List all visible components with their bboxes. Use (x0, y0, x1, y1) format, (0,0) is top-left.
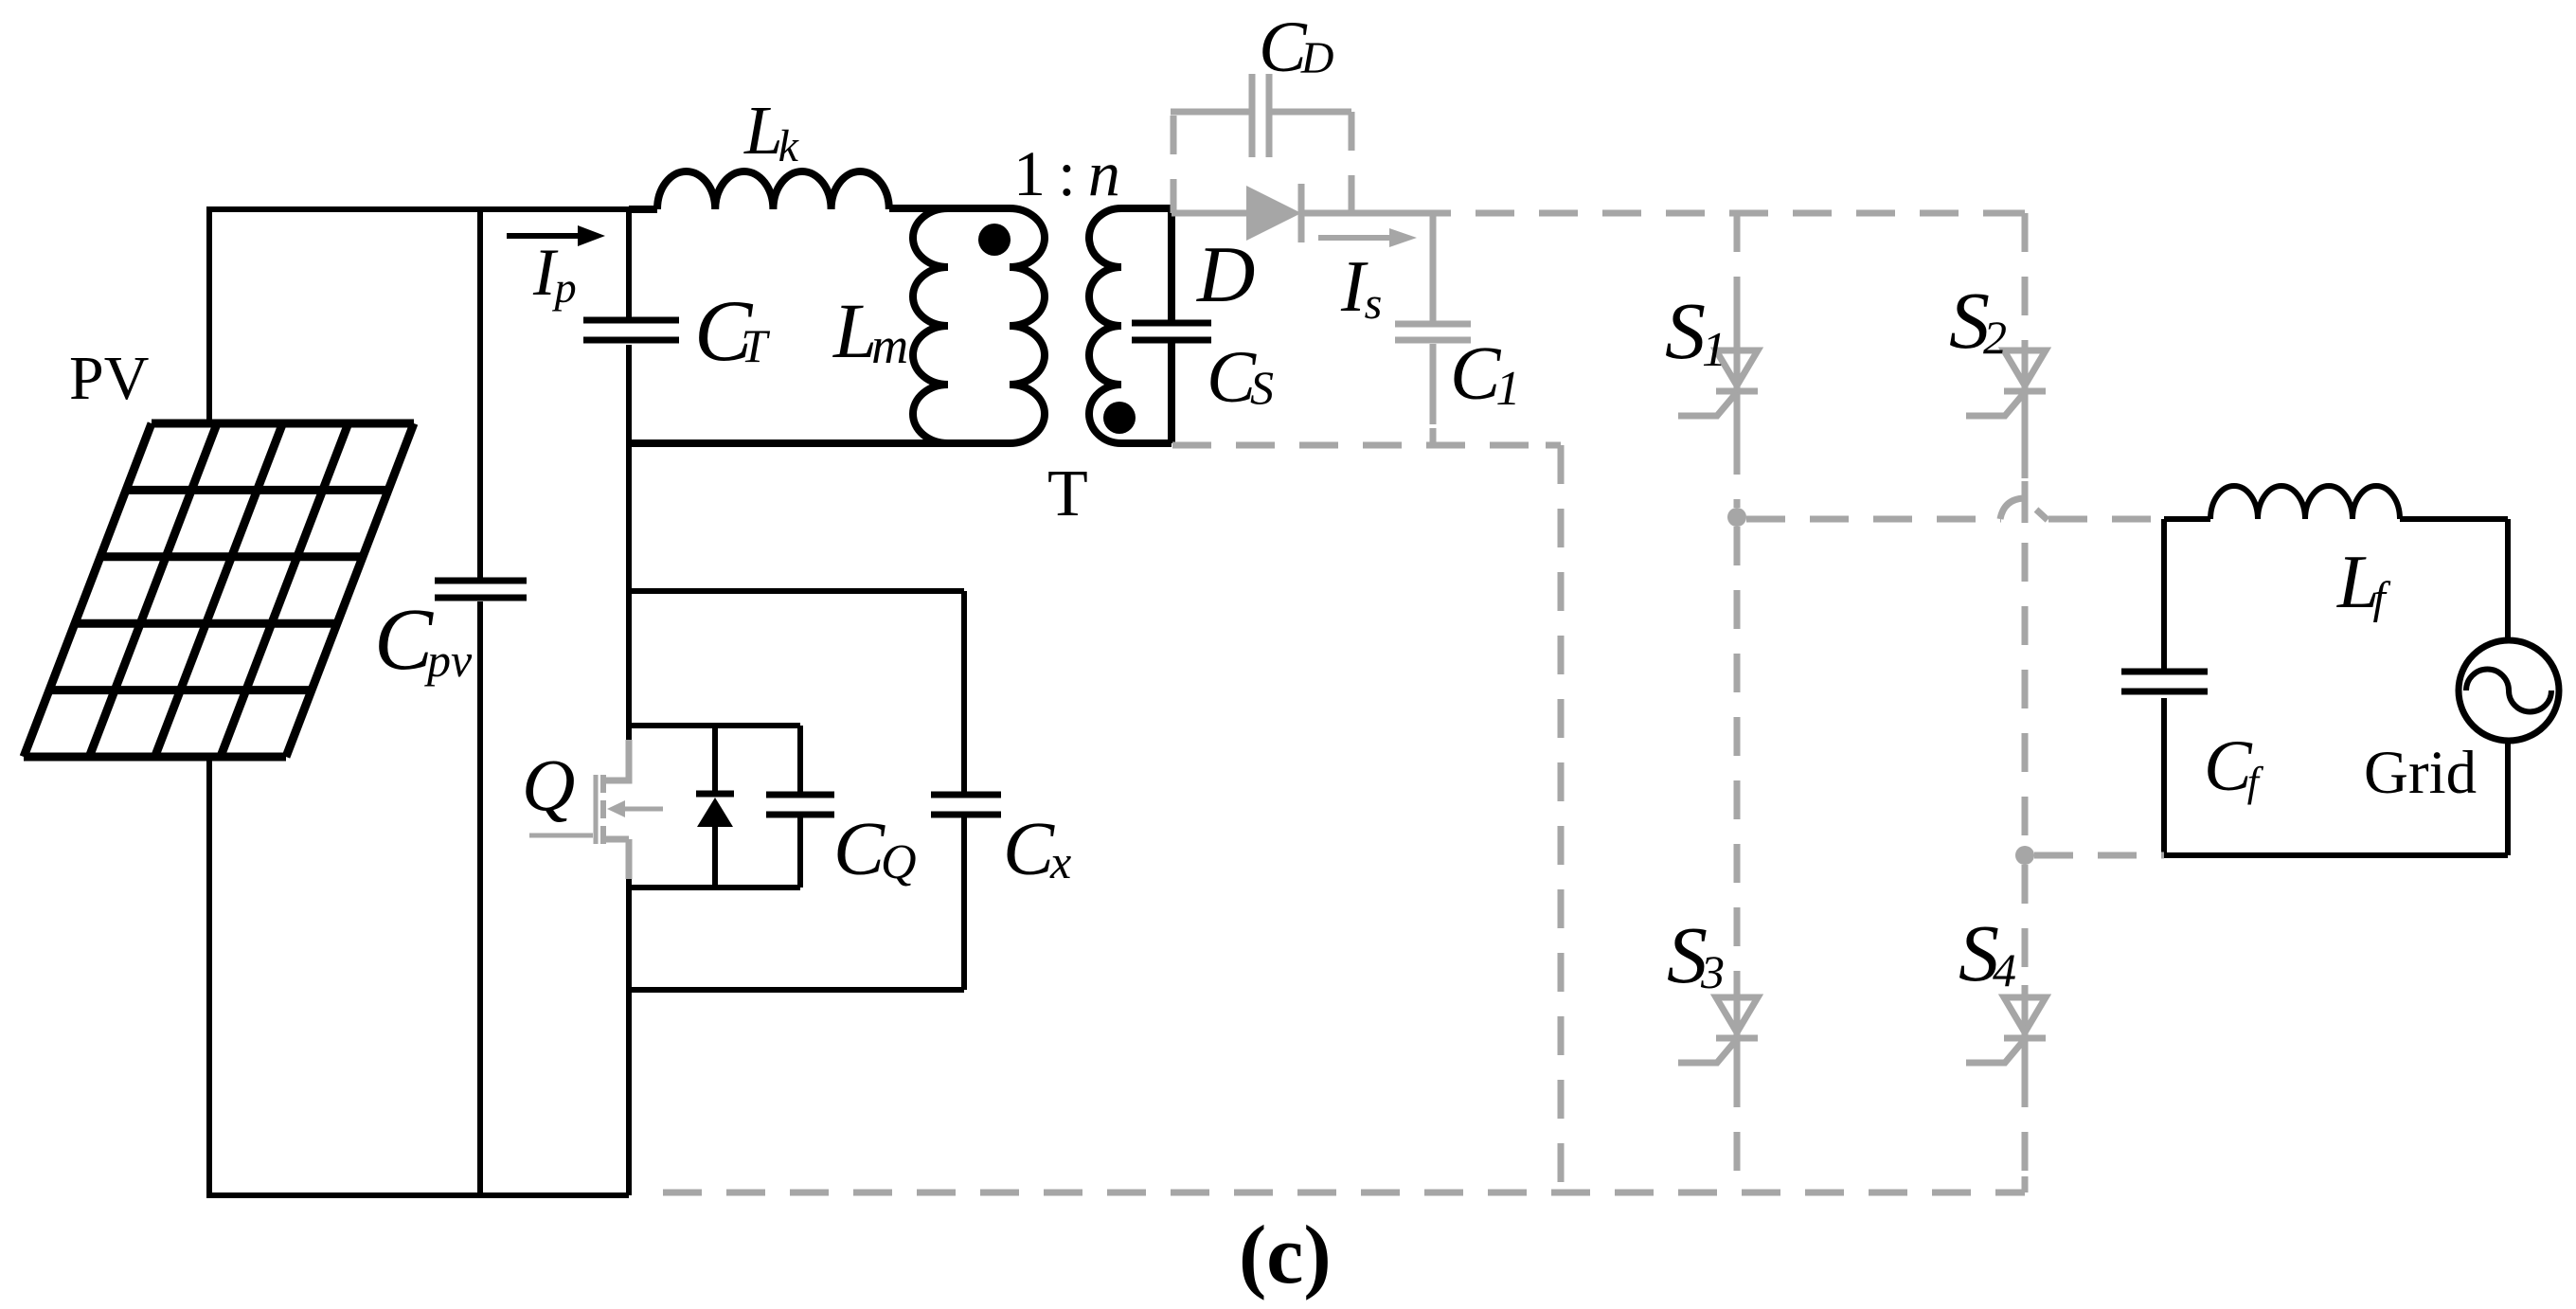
svg-text:PV: PV (69, 344, 149, 413)
svg-text:(c): (c) (1239, 1210, 1332, 1301)
svg-text:1 : n: 1 : n (1013, 137, 1118, 209)
svg-text:D: D (1196, 230, 1255, 319)
svg-text:T: T (1047, 457, 1088, 530)
svg-text:Grid: Grid (2364, 739, 2477, 807)
svg-text:Q: Q (522, 744, 575, 826)
